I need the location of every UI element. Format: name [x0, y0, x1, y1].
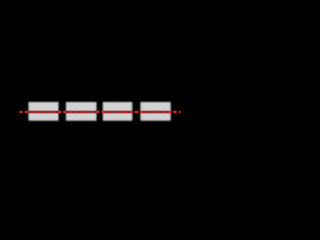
- dark base line over block 2: [66, 111, 97, 114]
- red dashed cut line: [19, 111, 180, 114]
- segment block 3: [103, 102, 133, 121]
- segment block 4: [140, 102, 170, 121]
- dark base line over block 3: [103, 111, 133, 114]
- dark base line over block 4: [140, 111, 170, 114]
- dark base line over block 1: [28, 111, 58, 114]
- segment block 1: [28, 102, 58, 121]
- segment block 2: [66, 102, 97, 121]
